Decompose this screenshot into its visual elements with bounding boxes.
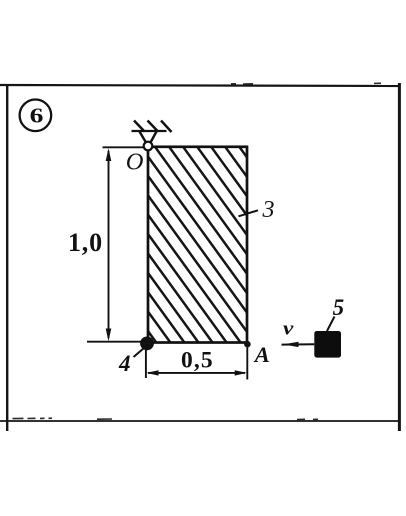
plate 3 (hatched rectangle) bbox=[0, 147, 381, 344]
dimension 0,5 left extension line bbox=[145, 347, 147, 378]
dimension 0,5 line with arrows bbox=[146, 370, 247, 375]
svg-text:A: A bbox=[253, 342, 270, 367]
svg-text:6: 6 bbox=[30, 103, 44, 127]
problem number badge 6 bbox=[20, 100, 52, 132]
leader line to label 4 bbox=[134, 348, 145, 357]
scan speckle ticks above top border bbox=[231, 82, 381, 85]
velocity arrow v bbox=[282, 342, 315, 347]
hinge support V sides bbox=[140, 132, 157, 143]
scan speckle dashes above bottom border bbox=[13, 418, 319, 419]
svg-text:5: 5 bbox=[333, 295, 345, 320]
hinge support ceiling line bbox=[132, 130, 167, 132]
hinge support hatch strokes bbox=[134, 121, 172, 133]
dimension 1,0 top extension line bbox=[103, 146, 145, 148]
svg-text:1,0: 1,0 bbox=[68, 228, 103, 257]
frame bottom border bbox=[0, 420, 400, 422]
svg-text:3: 3 bbox=[262, 197, 275, 223]
pivot pin circle at O bbox=[144, 142, 153, 151]
svg-text:O: O bbox=[126, 148, 144, 175]
dimension 1,0 line with arrows bbox=[106, 148, 112, 341]
frame right border bbox=[398, 83, 401, 431]
point 4 dot bbox=[140, 337, 154, 351]
svg-text:0,5: 0,5 bbox=[181, 348, 214, 374]
point A dot bbox=[244, 341, 251, 348]
frame top border bbox=[0, 85, 400, 86]
frame left border bbox=[6, 84, 8, 431]
dimension 1,0 bottom extension line bbox=[87, 341, 141, 343]
bullet 5 (black square) bbox=[314, 331, 341, 358]
leader line to label 5 bbox=[327, 317, 335, 332]
leader line to plate label 3 bbox=[239, 210, 259, 216]
svg-text:v: v bbox=[283, 319, 294, 340]
dimension 0,5 right extension line bbox=[246, 348, 248, 380]
svg-text:4: 4 bbox=[118, 351, 131, 376]
